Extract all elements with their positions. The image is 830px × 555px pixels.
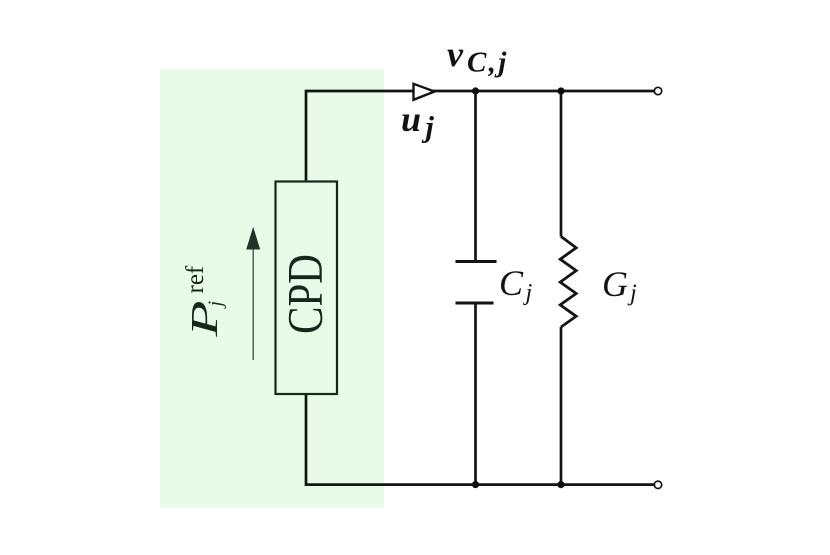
svg-text:v: v <box>447 34 464 74</box>
wire top: CPD top to top rail corner <box>306 91 655 182</box>
capacitor C_j plates <box>456 260 497 263</box>
green CPD region background <box>160 69 384 508</box>
resistor G_j zigzag <box>560 237 576 328</box>
svg-text:C: C <box>499 263 524 303</box>
svg-text:j: j <box>422 111 435 144</box>
open terminal top right <box>654 87 661 94</box>
wire bottom: CPD bottom to bottom rail <box>306 394 655 485</box>
svg-text:C,j: C,j <box>467 47 509 79</box>
svg-text:ref: ref <box>182 265 209 293</box>
node dot top capacitor <box>472 87 479 94</box>
svg-text:j: j <box>627 281 637 307</box>
node dot bottom resistor <box>557 481 564 488</box>
svg-text:CPD: CPD <box>277 254 333 334</box>
node dot bottom capacitor <box>472 481 479 488</box>
P_j^ref label (rotated) <box>182 265 227 338</box>
CPD box <box>276 182 338 395</box>
current arrow (open triangle) on top wire <box>414 84 435 100</box>
resistor branch wires <box>560 91 563 237</box>
svg-text:G: G <box>602 264 628 304</box>
svg-text:u: u <box>401 99 421 139</box>
svg-text:j: j <box>523 280 533 306</box>
open terminal bottom right <box>654 481 661 488</box>
capacitor branch wires <box>474 91 477 262</box>
node dot top resistor <box>557 87 564 94</box>
power reference arrow <box>252 248 254 360</box>
